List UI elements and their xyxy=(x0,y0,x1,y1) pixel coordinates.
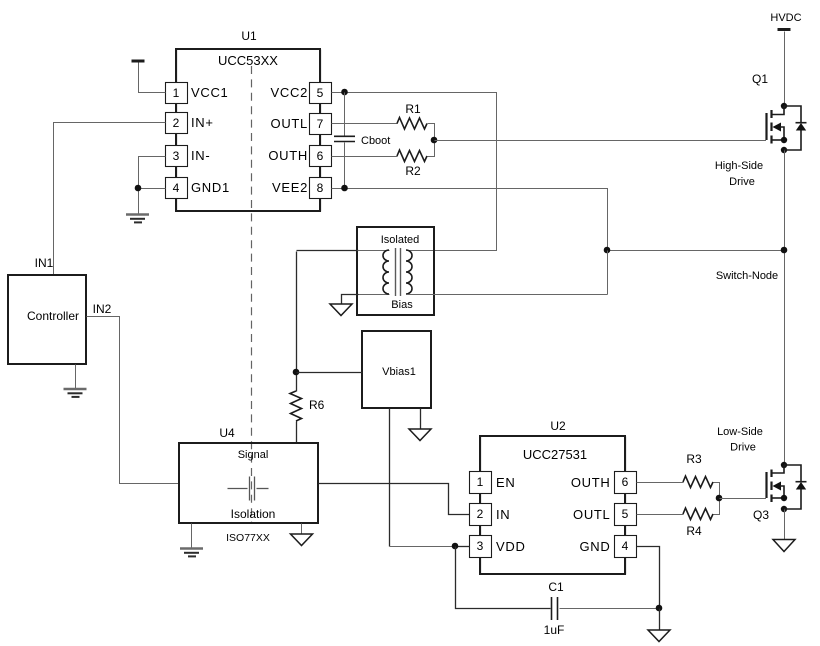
svg-text:6: 6 xyxy=(622,475,629,489)
pin 2 IN xyxy=(470,494,511,526)
ground U4 triangle xyxy=(291,534,313,546)
node HVDC xyxy=(770,12,801,30)
dashed isolation barrier line xyxy=(251,66,253,523)
svg-text:Cboot: Cboot xyxy=(361,135,390,147)
pin 3 VDD xyxy=(470,526,526,575)
svg-text:Controller: Controller xyxy=(27,309,79,323)
svg-text:R2: R2 xyxy=(405,164,421,178)
wire bias secondary bottom to switch node xyxy=(407,294,608,296)
pin 7 OUTL xyxy=(271,104,332,135)
transformer secondary winding xyxy=(406,250,412,294)
svg-text:3: 3 xyxy=(477,539,484,553)
pin 2 IN+ xyxy=(166,104,214,134)
ground Q3 triangle xyxy=(773,540,795,552)
svg-text:VEE2: VEE2 xyxy=(272,180,308,195)
svg-text:OUTH: OUTH xyxy=(268,148,308,163)
transistor Q3 xyxy=(753,462,787,522)
pin 3 IN- xyxy=(166,134,211,167)
wire IN- to GND1 xyxy=(139,157,166,189)
node GND1 junction xyxy=(135,185,142,192)
wire pin4 GND1 xyxy=(139,189,166,214)
node pin8 junction xyxy=(341,185,348,192)
wire gate drive to Q3 xyxy=(720,498,767,500)
svg-text:Drive: Drive xyxy=(729,176,755,188)
capacitor isolation symbol in U4 xyxy=(228,477,269,501)
label high side drive xyxy=(715,160,763,188)
wire Vbias1 output down to VDD xyxy=(389,409,391,547)
svg-text:R1: R1 xyxy=(405,102,421,116)
resistor R1 xyxy=(332,102,435,141)
svg-text:5: 5 xyxy=(317,86,324,100)
transformer isolated bias block xyxy=(357,227,434,315)
block U4 signal isolation ISO77XX xyxy=(179,426,318,544)
ground C1 triangle xyxy=(648,630,670,642)
wire U4 left ground stem xyxy=(191,524,193,549)
node VDD junction xyxy=(452,543,459,550)
svg-text:VCC1: VCC1 xyxy=(191,85,228,100)
wire U4 right ground stem xyxy=(301,524,303,535)
wire bias primary bottom lead xyxy=(358,294,390,296)
svg-text:IN-: IN- xyxy=(191,148,210,163)
svg-text:Signal: Signal xyxy=(238,449,269,461)
VCC1 supply stub xyxy=(132,61,166,93)
svg-text:7: 7 xyxy=(317,117,324,131)
svg-text:IN2: IN2 xyxy=(93,302,112,316)
pin 4 GND1 xyxy=(166,167,230,212)
transistor Q1 xyxy=(752,72,787,153)
op-amp U2 body UCC27531 xyxy=(480,419,625,574)
svg-text:U2: U2 xyxy=(550,419,566,433)
wire IN2 from controller to U4 xyxy=(87,317,180,484)
transformer primary winding xyxy=(383,250,389,294)
wire gate drive to Q1 xyxy=(435,140,767,142)
transformer core xyxy=(396,248,401,296)
resistor R4 xyxy=(637,499,720,539)
svg-text:Switch-Node: Switch-Node xyxy=(716,270,778,282)
svg-text:IN: IN xyxy=(496,507,510,522)
svg-text:5: 5 xyxy=(622,507,629,521)
wire bias top to R6 xyxy=(296,252,298,392)
svg-text:1: 1 xyxy=(173,86,180,100)
wire HVDC to Q1 xyxy=(784,32,786,107)
block controller xyxy=(8,256,112,364)
node R3-R4 junction xyxy=(716,495,723,502)
node switch node to bias junction xyxy=(604,247,611,254)
wire VEE2 pin8 to switch node xyxy=(332,189,785,251)
pin 8 VEE2 xyxy=(272,167,332,212)
svg-text:OUTH: OUTH xyxy=(571,475,611,490)
svg-text:Drive: Drive xyxy=(730,442,756,454)
op-amp U1 body UCC53XX xyxy=(176,29,320,211)
wire Vbias1 left to R6 node xyxy=(297,372,363,374)
svg-text:Bias: Bias xyxy=(391,299,413,311)
svg-text:GND1: GND1 xyxy=(191,180,230,195)
svg-text:ISO77XX: ISO77XX xyxy=(226,532,270,544)
wire bias primary top lead xyxy=(297,250,359,252)
ground bias primary triangle xyxy=(330,304,352,316)
svg-text:GND: GND xyxy=(580,539,611,554)
svg-text:OUTL: OUTL xyxy=(573,507,610,522)
svg-text:2: 2 xyxy=(477,507,484,521)
capacitor C1 1uF xyxy=(544,580,660,637)
resistor R2 xyxy=(332,141,435,179)
svg-text:Q3: Q3 xyxy=(753,508,769,522)
wire VCC2 pin5 to bias secondary xyxy=(332,93,497,251)
svg-text:UCC27531: UCC27531 xyxy=(523,447,587,462)
svg-text:Vbias1: Vbias1 xyxy=(382,366,416,378)
svg-text:OUTL: OUTL xyxy=(271,116,308,131)
wire VDD rail xyxy=(390,546,456,548)
wire Vbias1 ground stub xyxy=(420,409,422,430)
svg-text:8: 8 xyxy=(317,181,324,195)
pin 5 VCC2 xyxy=(271,50,332,104)
svg-text:U1: U1 xyxy=(241,29,257,43)
svg-text:1: 1 xyxy=(477,475,484,489)
ground controller earth xyxy=(64,389,87,397)
pin 6 OUTH xyxy=(571,437,637,494)
node R1-R2 junction xyxy=(431,137,438,144)
svg-text:EN: EN xyxy=(496,475,515,490)
svg-text:2: 2 xyxy=(173,116,180,130)
ground Vbias1 triangle xyxy=(409,429,431,441)
resistor R6 xyxy=(290,391,325,444)
label low side drive xyxy=(717,426,763,454)
svg-text:Q1: Q1 xyxy=(752,72,768,86)
wire controller ground stem xyxy=(75,365,77,390)
svg-text:VDD: VDD xyxy=(496,539,526,554)
svg-text:C1: C1 xyxy=(548,580,564,594)
svg-text:VCC2: VCC2 xyxy=(271,85,308,100)
svg-text:R3: R3 xyxy=(686,452,702,466)
svg-text:3: 3 xyxy=(173,149,180,163)
node R6 top junction xyxy=(293,369,300,376)
wire U4 output to U2 IN xyxy=(319,484,470,515)
pin 1 EN xyxy=(470,437,516,494)
svg-text:HVDC: HVDC xyxy=(770,12,801,24)
wire C1 ground stem xyxy=(659,609,661,631)
diode Q1 body diode xyxy=(784,106,807,150)
svg-text:1uF: 1uF xyxy=(544,623,565,637)
svg-text:U4: U4 xyxy=(219,426,235,440)
node switch node junction xyxy=(781,247,788,254)
wire C1 left branch xyxy=(456,547,551,609)
wire IN1 from controller to pin2 xyxy=(54,123,166,276)
svg-text:UCC53XX: UCC53XX xyxy=(218,53,278,68)
svg-text:Low-Side: Low-Side xyxy=(717,426,763,438)
pin 6 OUTH xyxy=(268,135,331,167)
resistor R3 xyxy=(637,452,720,499)
svg-text:Isolation: Isolation xyxy=(231,507,276,521)
ground U4 earth xyxy=(180,549,203,557)
voltage source Vbias1 xyxy=(362,331,431,408)
wire Q3 source to ground xyxy=(784,510,786,541)
svg-text:High-Side: High-Side xyxy=(715,160,763,172)
svg-text:R6: R6 xyxy=(309,398,325,412)
diode Q3 body diode xyxy=(784,465,807,509)
pin 4 GND xyxy=(580,526,637,575)
svg-text:4: 4 xyxy=(173,181,180,195)
svg-text:Isolated: Isolated xyxy=(381,234,420,246)
svg-text:IN+: IN+ xyxy=(191,115,214,130)
wire GND pin to C1 xyxy=(637,547,660,609)
svg-text:IN1: IN1 xyxy=(35,256,54,270)
ground GND1 earth xyxy=(126,215,149,223)
capacitor Cboot xyxy=(334,93,390,189)
node C1 right junction xyxy=(656,605,663,612)
pin 1 VCC1 xyxy=(166,50,229,104)
svg-text:6: 6 xyxy=(317,149,324,163)
pin 5 OUTL xyxy=(573,494,636,526)
node pin5 junction xyxy=(341,89,348,96)
svg-text:R4: R4 xyxy=(686,524,702,538)
wire switch node xyxy=(784,151,786,466)
svg-text:4: 4 xyxy=(622,539,629,553)
